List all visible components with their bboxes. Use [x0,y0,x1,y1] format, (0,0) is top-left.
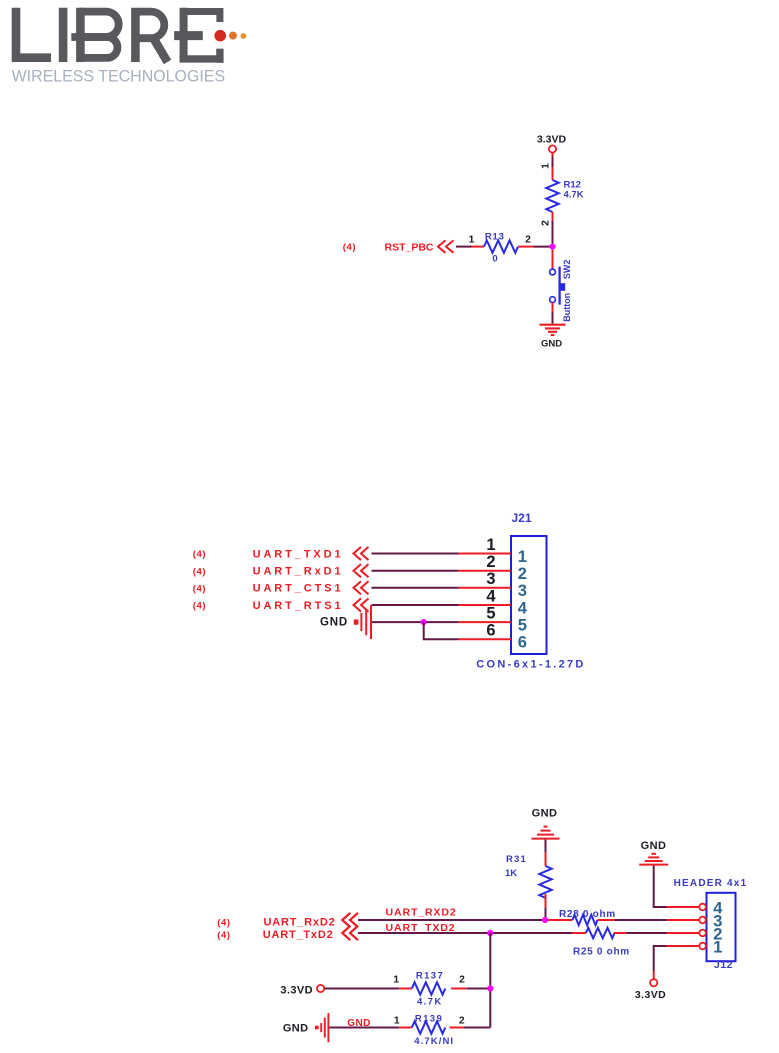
svg-text:(4): (4) [343,242,356,253]
svg-text:1: 1 [518,548,527,566]
wire UART_RXD2 to R28 [358,919,572,921]
svg-text:UART_RTS1: UART_RTS1 [253,600,344,612]
wire UART_RxD1 to J21 pin2 [372,570,512,572]
svg-text:HEADER 4x1: HEADER 4x1 [674,878,748,889]
wire node to J21 pin6 [424,622,511,639]
logo letter B [71,8,118,62]
svg-text:2: 2 [459,974,465,985]
svg-text:(4): (4) [193,601,206,612]
svg-text:3.3VD: 3.3VD [537,134,567,146]
logo letter I [59,8,68,62]
resistor R25 [586,928,615,938]
svg-text:(4): (4) [193,566,206,577]
J12 pin 3 circle [699,917,706,924]
node junction R137/bus [487,985,493,991]
off-page chevrons UART_TXD1 [354,547,369,560]
svg-text:UART_CTS1: UART_CTS1 [253,583,344,595]
svg-text:J21: J21 [511,511,531,525]
wire UART_RTS1 to J21 pin4 [372,604,512,606]
wire UART_TXD2 to R25 [358,932,586,934]
wire GND to J12 pin4 [654,866,700,907]
node junction TXD2/pullup bus [487,930,493,936]
wire GND to R31 pin1 [545,840,547,866]
svg-text:4.7K: 4.7K [564,190,584,201]
svg-text:5: 5 [486,605,495,623]
J12 pin 4 circle [699,904,706,911]
svg-text:1: 1 [486,536,495,554]
wire GND to J21 pin5 [372,621,511,623]
off-page chevrons UART_RxD2 [342,913,358,927]
svg-text:GND: GND [320,616,348,628]
resistor R12 [546,180,558,212]
svg-text:4: 4 [486,587,496,605]
node junction R31/RXD2 [542,917,548,923]
logo letter R [135,8,167,62]
svg-text:Button: Button [562,293,572,322]
svg-text:3: 3 [518,582,527,600]
svg-text:(4): (4) [217,930,230,941]
svg-text:SW2: SW2 [562,260,572,280]
ground symbol GND top [540,325,566,335]
wire R13 pin2 to node [518,246,551,248]
wire 3.3VD to R12 pin1 [552,157,554,181]
svg-text:1: 1 [394,1016,400,1027]
svg-text:GND: GND [532,807,558,819]
svg-text:6: 6 [518,634,527,652]
svg-text:4.7K: 4.7K [417,996,443,1007]
svg-text:6: 6 [486,622,495,640]
svg-text:4: 4 [518,599,528,617]
svg-text:WIRELESS TECHNOLOGIES: WIRELESS TECHNOLOGIES [12,67,226,86]
J12 pin 1 circle [699,943,706,950]
pullup bus vertical wire [489,933,491,1028]
wire R31 pin2 to node [545,894,547,918]
wire 3.3VD to R137 pin1 [325,988,412,990]
svg-text:J12: J12 [714,959,733,971]
wire RST_PBC to R13 pin1 [456,246,484,248]
ground symbol above R31 [532,827,560,839]
svg-text:R13: R13 [485,231,505,242]
wire R28 to J12 pin3 [598,919,700,921]
logo letter L [16,8,51,58]
svg-text:2: 2 [525,234,531,245]
ground symbol above J12 [639,854,668,865]
logo letter E [174,8,220,63]
wire J12 pin1 to 3.3VD [654,946,700,979]
svg-text:2: 2 [541,220,552,226]
wire SW2 pin2 to ground [552,303,554,324]
wire UART_CTS1 to J21 pin3 [372,587,512,589]
off-page chevrons UART_RTS1 [354,598,369,611]
wire UART_TXD1 to J21 pin1 [372,553,512,555]
wire node to SW2 pin1 [552,250,554,270]
svg-text:GND: GND [641,840,667,852]
svg-text:UART_TxD2: UART_TxD2 [263,929,334,941]
off-page chevrons UART_CTS1 [354,581,369,594]
svg-text:2: 2 [518,565,527,583]
off-page chevrons UART_RxD1 [354,564,369,577]
svg-text:1: 1 [469,234,475,245]
logo dot 1 [214,30,226,42]
svg-text:R137: R137 [416,970,444,981]
off-page connector chevrons RST_PBC [438,240,454,252]
svg-text:(4): (4) [193,549,206,560]
svg-text:R25 0 ohm: R25 0 ohm [573,947,630,958]
svg-text:1K: 1K [505,868,517,879]
power 3.3VD symbol [549,145,556,156]
svg-text:UART_RXD2: UART_RXD2 [386,907,457,919]
resistor R139 [412,1021,446,1033]
svg-text:CON-6x1-1.27D: CON-6x1-1.27D [476,659,585,671]
logo dot 2 [229,32,237,40]
wire R137 pin2 to bus node [451,988,490,990]
svg-text:UART_TXD1: UART_TXD1 [253,548,344,560]
resistor R28 [572,915,597,925]
wire R139 pin2 to bus corner [450,1027,491,1029]
connector J12 body [707,893,736,961]
svg-text:1: 1 [713,938,722,956]
svg-text:3: 3 [486,570,495,588]
logo dot 3 [241,33,247,39]
ground bar symbol J21 [354,605,371,639]
svg-text:UART_RxD2: UART_RxD2 [264,916,336,928]
resistor R13 [484,240,518,252]
svg-text:(4): (4) [217,917,230,928]
resistor R137 [412,982,446,994]
wire R25 to J12 pin2 [614,932,700,934]
off-page chevrons UART_TxD2 [342,926,358,940]
connector J21 body [511,536,547,654]
svg-text:R31: R31 [506,854,527,865]
svg-text:R28 0 ohm: R28 0 ohm [559,909,616,920]
svg-text:0: 0 [492,254,497,265]
node junction R12/R13/SW2 [549,244,555,250]
svg-text:GND: GND [283,1022,309,1034]
svg-text:(4): (4) [193,583,206,594]
svg-text:2: 2 [459,1016,465,1027]
svg-text:1: 1 [541,163,552,169]
svg-text:4.7K/NI: 4.7K/NI [414,1036,454,1047]
svg-text:2: 2 [486,553,495,571]
svg-text:RST_PBC: RST_PBC [384,241,433,253]
node junction GND pin5/pin6 [421,619,427,625]
power 3.3VD symbol J12 [650,979,657,986]
svg-text:5: 5 [518,616,527,634]
wire R12 pin2 to node [552,212,554,244]
power 3.3VD symbol R137 [317,985,324,992]
svg-text:1: 1 [393,974,399,985]
wire GND to R139 pin1 [329,1027,411,1029]
svg-text:3.3VD: 3.3VD [635,989,666,1001]
ground bar symbol R139 [315,1013,328,1042]
svg-text:3.3VD: 3.3VD [280,984,313,996]
svg-text:UART_RxD1: UART_RxD1 [253,566,344,578]
switch SW2 [550,267,566,305]
resistor R31 [539,866,551,898]
svg-text:R139: R139 [415,1014,443,1025]
svg-text:GND: GND [541,339,562,350]
J12 pin 2 circle [699,930,706,937]
